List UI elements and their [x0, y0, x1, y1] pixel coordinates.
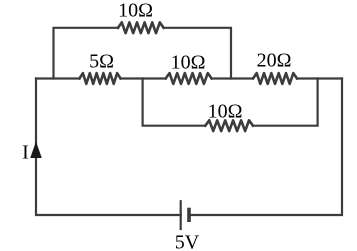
svg-text:10Ω: 10Ω — [171, 52, 206, 74]
svg-text:10Ω: 10Ω — [208, 101, 243, 123]
svg-text:5V: 5V — [175, 231, 200, 251]
svg-text:20Ω: 20Ω — [257, 49, 292, 71]
svg-text:10Ω: 10Ω — [118, 0, 153, 22]
svg-text:I: I — [22, 141, 29, 163]
svg-text:5Ω: 5Ω — [89, 50, 114, 72]
